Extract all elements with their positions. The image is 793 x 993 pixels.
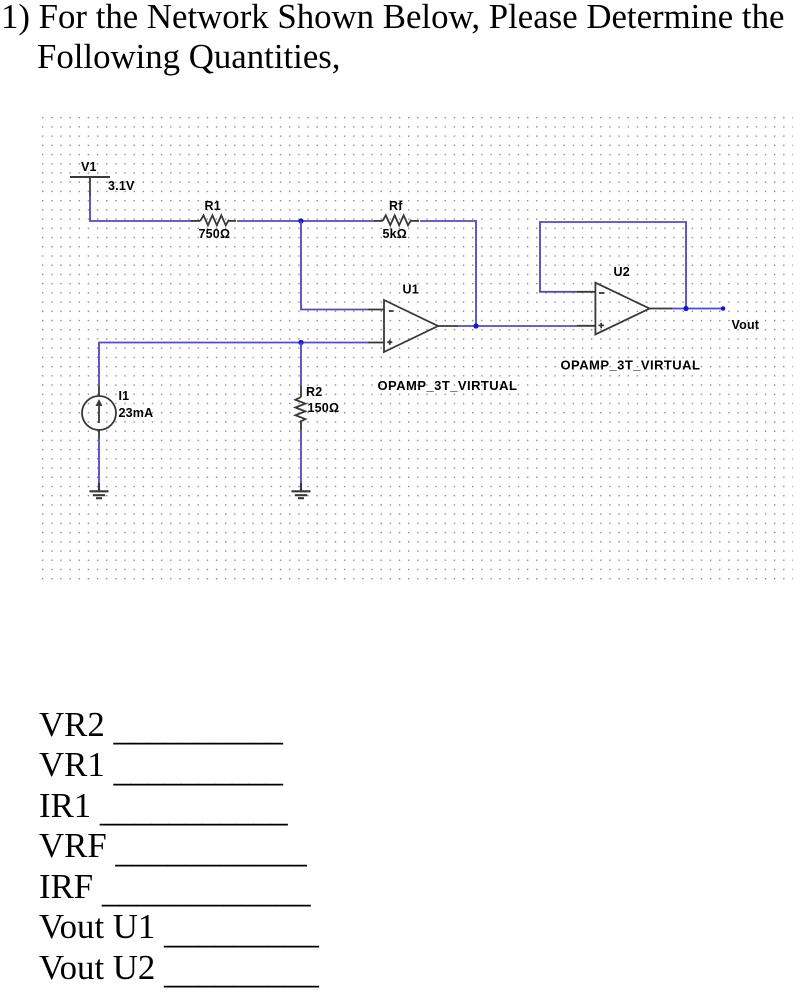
wire U1 output to U2 non-inverting input xyxy=(458,325,577,327)
battery V1 xyxy=(70,177,110,196)
svg-text:R1: R1 xyxy=(205,199,221,213)
svg-text:V1: V1 xyxy=(81,160,97,174)
svg-text:R2: R2 xyxy=(306,385,322,399)
dotted grid background xyxy=(42,116,793,580)
node Vout end dot xyxy=(721,306,726,311)
wire R1 to node A and Rf xyxy=(237,220,374,222)
svg-text:23mA: 23mA xyxy=(119,406,154,420)
wire Rf to U1 output node xyxy=(420,221,476,326)
svg-text:Rf: Rf xyxy=(389,199,403,213)
U2 feedback wire xyxy=(540,222,686,309)
circuit schematic xyxy=(0,0,793,600)
questions list xyxy=(39,705,319,989)
junction dot U2 output xyxy=(683,306,688,311)
resistor R2 xyxy=(295,386,305,430)
svg-text:U1: U1 xyxy=(403,283,419,297)
wire V1 to R1 xyxy=(90,196,191,221)
svg-text:5kΩ: 5kΩ xyxy=(383,227,408,241)
wire I1 to ground xyxy=(98,439,100,483)
wire U2 output to Vout xyxy=(672,308,723,310)
op-amp U2 xyxy=(577,283,672,335)
svg-text:750Ω: 750Ω xyxy=(199,227,231,241)
current source I1 xyxy=(82,386,116,439)
resistor R1 xyxy=(191,215,237,225)
node A junction dot xyxy=(298,218,303,223)
svg-text:3.1V: 3.1V xyxy=(108,179,135,193)
ground at I1 xyxy=(90,483,109,498)
wire node A to U1 inverting input xyxy=(301,221,368,310)
svg-text:150Ω: 150Ω xyxy=(308,401,340,415)
svg-text:Vout: Vout xyxy=(732,318,760,332)
op-amp U1 xyxy=(368,300,458,352)
wire R2 to ground xyxy=(300,430,302,483)
svg-text:OPAMP_3T_VIRTUAL: OPAMP_3T_VIRTUAL xyxy=(561,358,701,373)
svg-text:OPAMP_3T_VIRTUAL: OPAMP_3T_VIRTUAL xyxy=(378,378,518,393)
wire junction down to R2 xyxy=(300,343,302,387)
svg-text:U2: U2 xyxy=(614,265,630,279)
resistor Rf xyxy=(374,215,419,225)
ground at R2 xyxy=(292,483,311,498)
junction dot U1 output node xyxy=(473,323,478,328)
wire I1/R2 to U1 non-inverting input xyxy=(99,343,368,387)
svg-text:I1: I1 xyxy=(119,389,130,403)
junction dot at R2 top xyxy=(298,340,303,345)
title line 1 and 2 xyxy=(1,0,784,77)
